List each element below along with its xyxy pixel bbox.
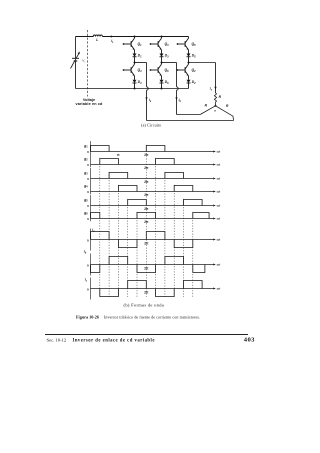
waveform g1 [83,141,221,157]
svg-text:0: 0 [87,288,89,292]
svg-text:0: 0 [87,264,89,268]
wire: source left leg [75,37,77,89]
resistor R (left diagonal to phase b) [200,104,215,115]
waveform i_c [85,278,221,300]
transistor Q2 [177,63,197,78]
wire: leg 1 upper to node [134,59,136,63]
waveform i_b [84,250,221,276]
svg-text:IL: IL [111,39,114,44]
node phase a [134,62,136,64]
svg-text:Q3: Q3 [165,42,170,47]
svg-text:D1: D1 [138,54,142,59]
svg-text:Q5: Q5 [192,42,197,47]
svg-text:D2: D2 [192,80,196,85]
transistor Q3 [150,37,170,52]
waveform g6 [83,208,221,224]
svg-text:0: 0 [87,204,89,208]
svg-text:L: L [96,38,98,42]
diode D4 [133,78,143,86]
svg-text:g2: g2 [83,157,88,162]
svg-text:ic: ic [85,278,88,283]
label: Voltaje variable en cd [75,98,103,106]
wire: load bottom line [147,120,234,122]
svg-text:R: R [219,95,222,99]
svg-text:ic: ic [210,87,213,92]
svg-text:ib: ib [179,98,182,103]
svg-text:Sec. 10-12: Sec. 10-12 [47,337,67,342]
svg-text:R: R [226,104,229,108]
resistor R (phase c vertical) [214,93,221,106]
svg-text:ωt: ωt [217,150,222,154]
svg-text:D6: D6 [165,80,169,85]
wire: leg 3 lower to rail [188,86,190,89]
junction top rail leg 2 [161,36,163,38]
svg-text:n: n [214,109,216,113]
node phase c [188,62,190,64]
transistor Q1 [123,37,143,52]
svg-text:ωt: ωt [217,217,222,221]
svg-text:variable en cd: variable en cd [75,102,103,106]
svg-text:D4: D4 [138,80,142,85]
diode D6 [160,78,170,86]
svg-text:2π: 2π [144,166,149,170]
diode D2 [187,78,197,86]
svg-text:2π: 2π [144,267,149,271]
svg-text:(a) Circuito: (a) Circuito [141,122,161,127]
svg-text:g1: g1 [83,144,88,149]
timing grid dashed lines [100,145,193,297]
svg-text:ωt: ωt [217,238,222,242]
svg-text:ωt: ωt [217,263,222,267]
svg-text:2π: 2π [144,220,149,224]
svg-text:ib: ib [84,250,87,255]
waveform g3 [83,168,221,184]
wire: leg 2 lower to rail [161,86,163,89]
diode D5 [187,52,197,60]
svg-text:g3: g3 [83,171,88,176]
svg-text:ia: ia [149,98,152,103]
svg-text:403: 403 [244,336,255,343]
svg-text:0: 0 [87,150,89,154]
svg-text:ωt: ωt [217,163,222,167]
svg-text:Q4: Q4 [138,68,143,73]
transistor Q4 [123,63,143,78]
svg-text:2π: 2π [144,193,149,197]
svg-text:2π: 2π [144,291,149,295]
svg-text:0: 0 [87,163,89,167]
svg-text:0: 0 [87,239,89,243]
svg-text:0: 0 [87,177,89,181]
svg-text:R: R [205,104,208,108]
boundary dashed line (source / inverter) [87,30,89,97]
transistor Q5 [177,37,197,52]
wire: phase c output with arrow i_c [189,63,217,94]
footer rule [45,334,248,336]
svg-text:2π: 2π [144,207,149,211]
svg-text:Figura 10-26: Figura 10-26 [76,315,99,320]
svg-text:Q2: Q2 [192,68,197,73]
svg-text:π: π [117,153,120,157]
svg-text:0: 0 [87,190,89,194]
junction bottom rail leg 2 [161,88,163,90]
svg-text:g4: g4 [83,184,88,189]
waveform g2 [83,154,221,170]
svg-text:ia: ia [92,228,95,233]
svg-text:Inversor de enlace de cd varia: Inversor de enlace de cd variable [73,338,155,343]
wire: leg 3 upper to node [188,59,190,63]
svg-text:2π: 2π [144,153,149,157]
svg-text:ωt: ωt [217,287,222,291]
node phase b [161,62,163,64]
node n (load neutral) [214,105,216,113]
svg-text:Q1: Q1 [138,42,143,47]
waveform g4 [83,181,221,197]
svg-text:D5: D5 [192,54,196,59]
svg-text:(b) Formas de onda: (b) Formas de onda [124,302,165,307]
wire: bottom return rail [76,88,189,90]
diode D1 [133,52,143,60]
wire: phase a output with arrow i_a [135,63,152,121]
dc source Vs [71,52,87,69]
junction bottom rail leg 1 [134,88,136,90]
wire: top rail with current arrow I_L [102,35,188,44]
wire: leg 2 upper to node [161,59,163,63]
waveform i_a [87,228,221,251]
inductor L [76,35,103,42]
svg-text:Q6: Q6 [165,68,170,73]
figure caption [76,315,200,320]
junction top rail leg 1 [134,36,136,38]
wire: phase b output with arrow i_b [162,63,201,115]
diode D3 [160,52,170,60]
svg-text:ωt: ωt [217,204,222,208]
svg-text:Inversor trifásico de fuente d: Inversor trifásico de fuente de corrient… [104,315,200,320]
svg-text:0: 0 [87,217,89,221]
svg-text:D3: D3 [165,54,169,59]
svg-text:2π: 2π [144,242,149,246]
svg-text:ωt: ωt [217,190,222,194]
svg-text:Vs: Vs [82,59,86,64]
svg-text:ωt: ωt [217,177,222,181]
svg-text:g6: g6 [83,211,88,216]
svg-text:2π: 2π [144,180,149,184]
transistor Q6 [150,63,170,78]
svg-text:g5: g5 [83,198,88,203]
waveform g5 [83,195,221,211]
resistor R (right diagonal to phase a) [216,104,234,121]
wire: leg 1 lower to rail [134,86,136,89]
